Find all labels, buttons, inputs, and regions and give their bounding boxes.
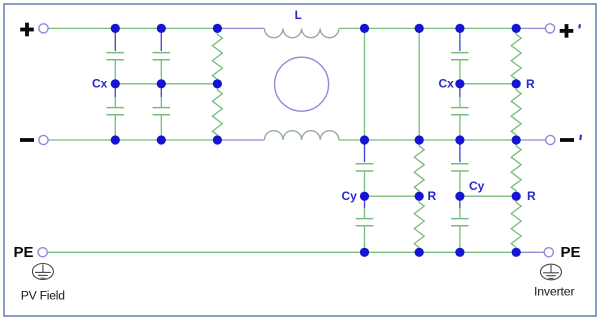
wire vertical column at x=364 <box>364 28 366 140</box>
wire Cy-R interconnect 1 <box>365 195 420 197</box>
junction dots Cy mid nodes <box>360 192 521 201</box>
ground symbol Inverter <box>541 264 562 280</box>
inductor L core circle <box>275 57 329 111</box>
capacitor Cx3 lower (x=460) <box>451 84 469 140</box>
label + input <box>20 23 34 37</box>
capacitor Cy1 upper (x=364) <box>356 140 374 196</box>
label PV Field <box>21 289 65 303</box>
label R bottom 2 <box>527 189 536 203</box>
wire PE rail <box>47 251 516 253</box>
wire Cx interconnect node A <box>115 83 217 85</box>
junction dots minus rail <box>111 135 521 144</box>
resistor R1 upper (x=217) <box>212 28 222 83</box>
label PE input <box>14 244 34 261</box>
wire PE rail to right PE terminal (purple) <box>516 251 544 253</box>
svg-text:R: R <box>526 77 535 91</box>
resistor R3 upper (x=516) <box>511 28 521 83</box>
label Cx left <box>92 77 108 91</box>
capacitor Cx1 lower <box>107 84 125 140</box>
wire Cy-R interconnect 2 <box>460 195 516 197</box>
wire - rail after choke <box>339 139 516 141</box>
svg-text:Cx: Cx <box>439 77 455 91</box>
wire - rail to choke (purple) <box>217 139 264 141</box>
svg-text:R: R <box>428 189 437 203</box>
capacitor Cx2 lower <box>153 84 171 140</box>
junction dots PE rail <box>360 248 521 257</box>
resistor R3 lower (x=516) <box>511 84 521 140</box>
svg-text:PE: PE <box>14 244 34 261</box>
label - input <box>20 138 34 142</box>
label Inverter <box>534 284 574 298</box>
svg-text:Cy: Cy <box>469 179 485 193</box>
wire + rail to +' terminal (purple) <box>516 27 545 29</box>
terminal -' output <box>546 135 555 144</box>
svg-text:PV Field: PV Field <box>21 289 65 303</box>
label R bottom 1 <box>428 189 437 203</box>
wire + rail left segment <box>48 27 217 29</box>
terminal PE output <box>544 248 553 257</box>
label -' output <box>560 135 582 142</box>
terminal +' output <box>545 24 554 33</box>
wire vertical column at x=419 <box>418 28 420 140</box>
svg-text:Inverter: Inverter <box>534 284 574 298</box>
svg-text:L: L <box>295 8 302 22</box>
terminal + input <box>39 24 48 33</box>
resistor R4 upper (x=516 lower section) <box>511 140 521 196</box>
capacitor Cy2 lower (x=460) <box>451 196 469 252</box>
junction dots Cx mid nodes <box>111 79 521 88</box>
svg-text:Cy: Cy <box>342 189 358 203</box>
resistor R4 lower (x=516 lower section) <box>511 196 521 252</box>
label +' output <box>560 24 581 38</box>
capacitor Cx3 upper (x=460) <box>451 28 469 83</box>
capacitor Cx2 upper <box>153 28 171 83</box>
wire + rail after choke <box>339 27 516 29</box>
label Cx right <box>439 77 455 91</box>
wire Cx-R interconnect right <box>460 83 516 85</box>
label Cy 1 <box>342 189 358 203</box>
inductor L bottom winding <box>264 131 339 140</box>
label R top right <box>526 77 535 91</box>
inductor L top winding <box>264 28 339 37</box>
svg-text:PE: PE <box>561 244 581 261</box>
resistor R1 lower (x=217) <box>212 84 222 140</box>
label PE output <box>561 244 581 261</box>
capacitor Cy2 upper (x=460) <box>451 140 469 196</box>
resistor R2 lower (x=419) <box>414 196 424 252</box>
resistor R2 upper (x=419) <box>414 140 424 196</box>
terminal PE input <box>38 248 47 257</box>
wire - rail left segment <box>48 139 217 141</box>
wire - rail to -' terminal (purple) <box>516 139 546 141</box>
svg-text:R: R <box>527 189 536 203</box>
label L <box>295 8 302 22</box>
capacitor Cx1 upper <box>107 28 125 83</box>
svg-text:Cx: Cx <box>92 77 108 91</box>
capacitor Cy1 lower (x=364) <box>356 196 374 252</box>
wire + rail to choke (purple) <box>217 27 264 29</box>
ground symbol PV Field <box>32 264 53 280</box>
terminal - input <box>39 135 48 144</box>
label Cy 2 <box>469 179 485 193</box>
junction dots top rail <box>111 24 521 33</box>
